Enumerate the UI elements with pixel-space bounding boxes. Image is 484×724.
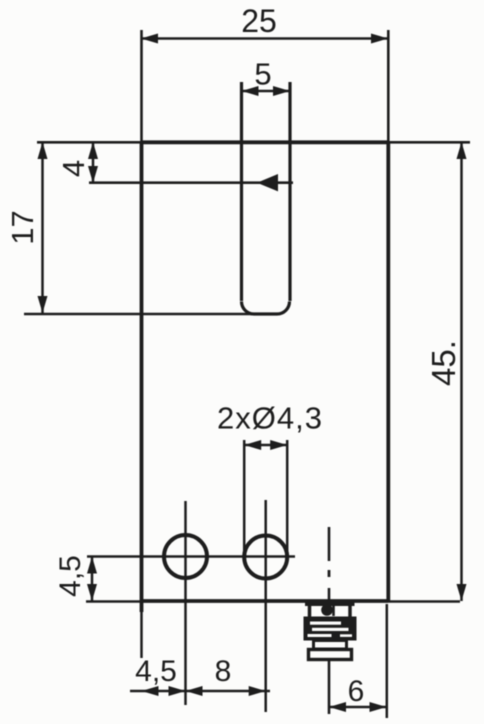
svg-text:17: 17: [5, 210, 40, 244]
svg-text:2xØ4,3: 2xØ4,3: [217, 401, 323, 436]
svg-text:4,5: 4,5: [54, 555, 87, 597]
svg-text:4: 4: [56, 160, 91, 177]
svg-text:6: 6: [348, 675, 365, 708]
svg-text:5: 5: [254, 57, 271, 92]
svg-text:8: 8: [215, 655, 232, 688]
svg-text:25: 25: [241, 3, 277, 39]
svg-text:45.: 45.: [425, 340, 462, 386]
svg-text:4,5: 4,5: [135, 655, 177, 688]
